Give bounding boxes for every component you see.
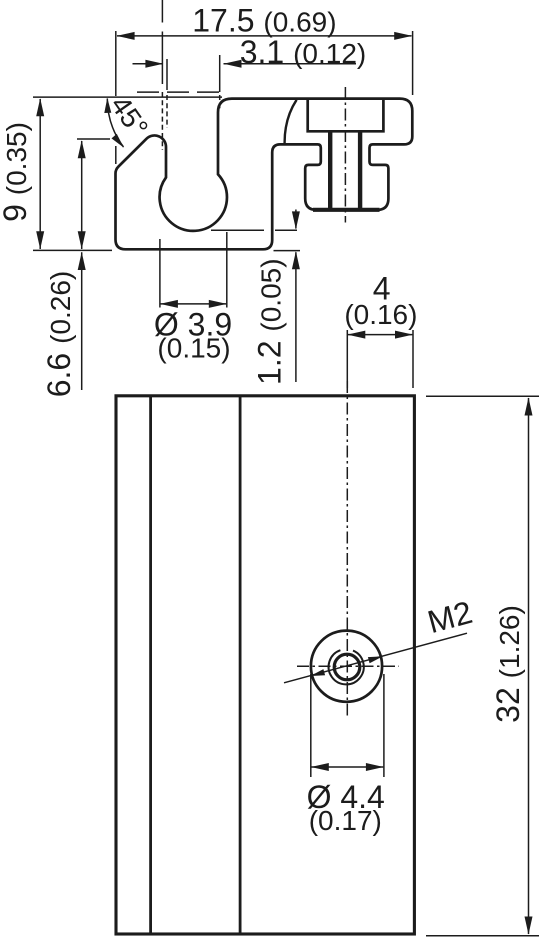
svg-text:3.1 (0.12): 3.1 (0.12) [240,34,367,70]
svg-text:M2: M2 [424,594,476,640]
svg-text:(0.17): (0.17) [309,805,382,836]
svg-text:9 (0.35): 9 (0.35) [0,122,33,222]
svg-text:6.6 (0.26): 6.6 (0.26) [41,271,77,398]
svg-text:32 (1.26): 32 (1.26) [490,605,526,723]
svg-text:(0.16): (0.16) [344,299,417,330]
svg-text:(0.15): (0.15) [157,333,230,364]
svg-text:1.2 (0.05): 1.2 (0.05) [252,258,288,385]
